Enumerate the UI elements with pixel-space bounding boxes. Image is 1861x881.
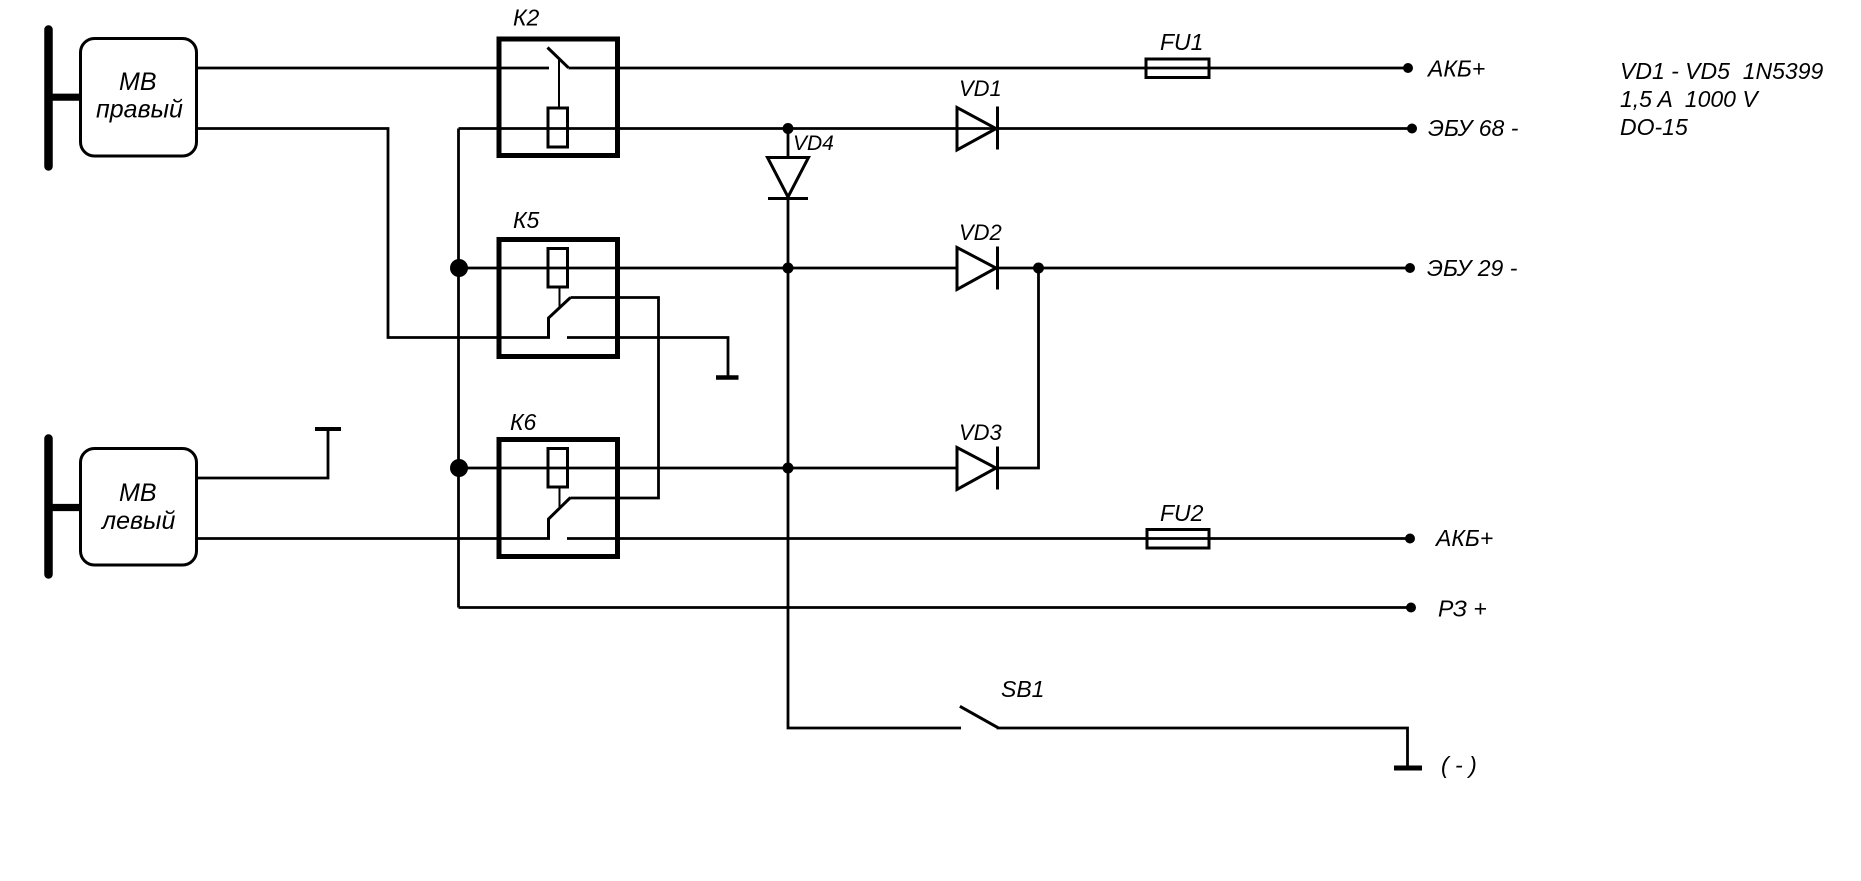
wire K5 NC contact to K6 NC contact — [571, 298, 659, 499]
relay K6 coil — [548, 449, 568, 488]
wire left vertical bus — [457, 129, 460, 608]
svg-text:VD1 - VD5 1N5399: VD1 - VD5 1N5399 — [1620, 58, 1823, 84]
wire VD4 cathode down to SB1 — [788, 198, 961, 728]
svg-text:VD2: VD2 — [959, 220, 1002, 245]
svg-text:VD4: VD4 — [793, 132, 834, 155]
wire VD4 branch top — [787, 129, 790, 158]
relay K2 switch arm — [548, 48, 569, 68]
wire K5 NO contact to ground — [567, 338, 728, 376]
svg-text:К2: К2 — [513, 5, 540, 31]
svg-text:РЗ +: РЗ + — [1438, 596, 1487, 622]
relay K6 switch arm — [549, 498, 571, 539]
wire VD3 cathode up to EBU29 line — [997, 268, 1039, 468]
fuse FU1 — [1146, 59, 1209, 78]
svg-text:VD1: VD1 — [959, 76, 1002, 101]
node AKB+ bottom terminal — [1405, 534, 1415, 544]
svg-text:1,5 A 1000 V: 1,5 A 1000 V — [1620, 86, 1760, 112]
wire K6 coil line to VD3 anode — [459, 467, 957, 470]
block MB right (МВ правый) — [81, 39, 197, 157]
wire EBU68 line through K2 coil — [459, 127, 1413, 130]
wire K2 switch to AKB+ terminal through FU1 — [569, 67, 1409, 70]
wire RZ+ line — [459, 606, 1412, 609]
svg-text:FU2: FU2 — [1160, 500, 1204, 526]
relay K5 coil — [548, 249, 568, 288]
motor MB left terminal bar — [46, 439, 80, 575]
node AKB+ top terminal — [1403, 63, 1413, 73]
svg-text:SB1: SB1 — [1001, 676, 1044, 702]
relay K2 link — [558, 60, 560, 108]
relay K5 link — [559, 287, 561, 309]
junction node VD4 EBU29 — [783, 263, 794, 274]
node EBU68 terminal — [1407, 124, 1417, 134]
svg-text:( - ): ( - ) — [1441, 752, 1477, 778]
wire K5 coil line to VD2 anode — [459, 267, 957, 270]
svg-text:МВ: МВ — [119, 479, 157, 507]
relay K5 box — [499, 240, 618, 357]
node EBU29 terminal — [1405, 263, 1415, 273]
wire SB1 to minus ground — [997, 728, 1408, 766]
junction node K6 coil left — [450, 459, 468, 477]
wire MB right bottom down and to K5 common — [196, 129, 550, 338]
relay K6 link — [559, 487, 561, 509]
svg-text:К5: К5 — [513, 207, 540, 233]
relay K2 box — [499, 39, 618, 156]
node RZ+ terminal — [1406, 603, 1416, 613]
block MB left (МВ левый) — [81, 449, 197, 566]
junction node VD4 VD3 — [783, 463, 794, 474]
wire MB left bottom to K6 common — [196, 537, 550, 540]
svg-text:К6: К6 — [510, 409, 537, 435]
relay K5 switch arm — [549, 298, 571, 338]
junction node VD4 top — [783, 123, 794, 134]
svg-text:DO-15: DO-15 — [1620, 114, 1688, 140]
ground above MB left — [315, 427, 341, 431]
diode VD1 — [957, 107, 998, 151]
svg-text:ЭБУ 29 -: ЭБУ 29 - — [1427, 255, 1518, 281]
svg-text:VD3: VD3 — [959, 420, 1003, 445]
motor MB right terminal bar — [46, 30, 80, 167]
svg-text:ЭБУ 68 -: ЭБУ 68 - — [1428, 115, 1519, 141]
wire MB left top to case ground — [196, 430, 328, 479]
ground minus terminal — [1394, 766, 1422, 771]
junction node VD2 VD3 link — [1033, 263, 1044, 274]
diode VD4 (pointing down) — [768, 158, 809, 199]
svg-text:левый: левый — [100, 507, 175, 535]
relay K6 box — [499, 440, 618, 557]
note VD1-VD5 text — [1620, 58, 1823, 140]
svg-text:МВ: МВ — [119, 68, 157, 96]
svg-text:FU1: FU1 — [1160, 29, 1203, 55]
ground right of K5 — [716, 375, 739, 380]
svg-text:АКБ+: АКБ+ — [1426, 56, 1485, 82]
diode VD2 — [957, 247, 998, 290]
svg-text:АКБ+: АКБ+ — [1434, 525, 1493, 551]
wire K6 NO to AKB+ terminal through FU2 — [567, 537, 1410, 540]
diode VD3 — [957, 447, 998, 490]
svg-text:правый: правый — [96, 96, 183, 124]
relay K2 coil — [548, 108, 568, 147]
switch SB1 arm — [960, 706, 999, 728]
wire VD2 cathode to EBU29 terminal — [997, 267, 1410, 270]
junction node K5 coil left — [450, 259, 468, 277]
wire MB right top to K2 switch — [196, 67, 549, 70]
fuse FU2 — [1147, 530, 1209, 549]
